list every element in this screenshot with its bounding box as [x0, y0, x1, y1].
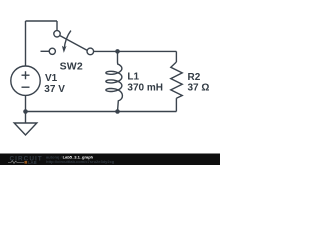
logo waveform	[8, 161, 24, 164]
switch SW2 actuation arrow	[62, 31, 71, 53]
wire V1 bottom stub	[25, 95, 27, 111]
inductor L1	[106, 51, 123, 111]
switch SW2 common terminal	[87, 48, 94, 55]
svg-text:37 V: 37 V	[44, 84, 65, 95]
switch SW2 top terminal	[54, 31, 60, 37]
switch SW2 left throw stub	[41, 50, 50, 52]
ground	[14, 112, 37, 136]
bottom rail junction dot at L1	[115, 109, 120, 114]
svg-text:http://circuitlab.com/c7sru2e3: http://circuitlab.com/c7sru2e3dy2cg	[46, 159, 115, 164]
wire V1 top to corner	[25, 21, 27, 66]
ground node junction dot	[23, 109, 28, 114]
switch SW2 left terminal	[49, 48, 55, 54]
wire down to switch top terminal	[56, 21, 58, 31]
wire R2 bottom stub	[175, 98, 177, 111]
wire bottom rail	[26, 111, 177, 113]
node A junction dot (switch / L1 / R2)	[115, 49, 120, 54]
svg-text:LAB: LAB	[28, 160, 37, 165]
wire R2 top stub	[175, 51, 177, 62]
watermark bar	[0, 154, 220, 166]
svg-text:L1: L1	[127, 72, 139, 83]
svg-text:37 Ω: 37 Ω	[188, 83, 210, 94]
wire top horizontal	[26, 20, 58, 22]
wire switch common to node A	[94, 50, 177, 52]
switch SW2 blade	[60, 36, 87, 51]
svg-text:R2: R2	[188, 72, 201, 83]
svg-text:370 mH: 370 mH	[127, 83, 163, 94]
voltage source V1	[11, 66, 40, 95]
svg-text:SW2: SW2	[60, 61, 83, 73]
logo orange mark	[25, 161, 28, 164]
resistor R2	[171, 62, 182, 98]
svg-text:V1: V1	[45, 73, 58, 84]
